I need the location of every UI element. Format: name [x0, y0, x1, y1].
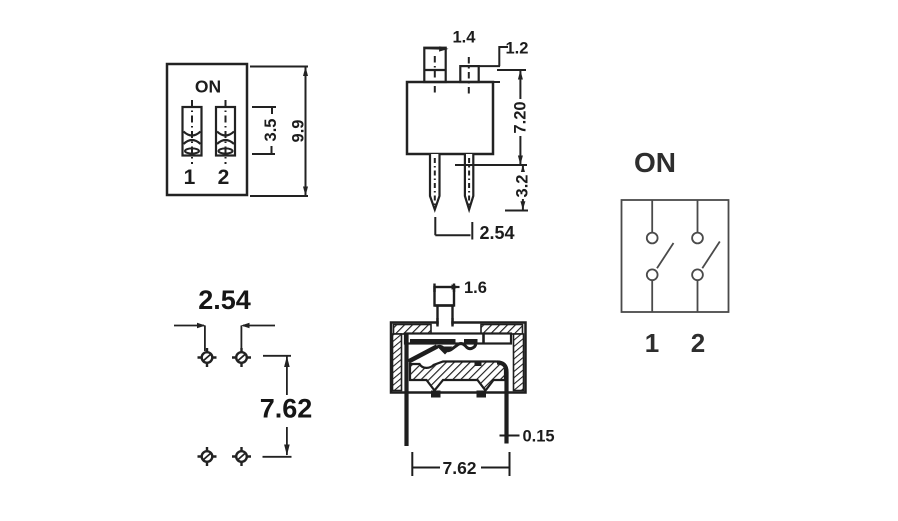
left leg (section) — [404, 334, 408, 446]
switch body (front view) — [407, 82, 493, 154]
svg-text:9.9: 9.9 — [290, 120, 308, 143]
svg-text:0.15: 0.15 — [523, 428, 555, 446]
pin stub 2 (section) — [477, 391, 487, 398]
dim 7.20 / 3.2 shared extension — [455, 164, 527, 166]
contact spring — [435, 342, 476, 351]
dim 1.4 leader — [425, 47, 445, 50]
switch 2 top wire — [697, 200, 699, 233]
dim 2.54 arrow left — [174, 325, 204, 327]
svg-text:2.54: 2.54 — [198, 285, 251, 315]
top wall hatched left — [394, 325, 432, 335]
switch 1 lower contact — [647, 269, 658, 280]
actuator 2 centerline — [468, 57, 470, 94]
slider slot 2 — [216, 107, 235, 156]
right leg (section) — [497, 363, 507, 444]
switch 2 lever — [702, 242, 720, 269]
switch body outline (top view) — [167, 64, 247, 195]
switch 1 bottom wire — [651, 280, 653, 312]
switch 1 lever — [657, 243, 674, 268]
svg-text:1.2: 1.2 — [506, 40, 529, 58]
dim 7.62 line (section) — [412, 452, 509, 476]
svg-text:7.20: 7.20 — [512, 101, 530, 133]
dim 0.15 line — [500, 435, 520, 437]
dim 7.62 line lower with arrow down — [286, 427, 288, 455]
slot 1 slider dimple — [185, 148, 199, 153]
dim 2.54 arrow right — [243, 325, 275, 327]
switch 2 bottom wire — [697, 280, 699, 312]
switch 1 upper contact — [647, 233, 658, 244]
top wall hatched right — [481, 325, 523, 335]
right wall hatched — [514, 334, 524, 391]
top wall ledge lines — [431, 333, 438, 335]
actuator 1 raised — [424, 48, 445, 82]
slider slot 1 — [183, 107, 202, 156]
cover plate — [405, 334, 511, 344]
actuator stem (section) — [438, 306, 453, 326]
dim 3.5 extension bottom — [252, 146, 275, 154]
dim 9.9 extension bottom — [250, 195, 308, 197]
pin stub 1 (section) — [431, 391, 441, 398]
dim 9.9 text — [290, 118, 304, 144]
dim 1.2 elbow — [499, 47, 508, 66]
dim 1.6 arrow — [454, 286, 460, 288]
svg-text:1: 1 — [645, 328, 659, 358]
pad B1 — [198, 447, 217, 466]
dim 2.54 elbow (front view) — [435, 217, 472, 240]
pad A1 — [198, 348, 217, 367]
dim 7.62 text (section) — [440, 458, 481, 476]
slot 2 slider arcs — [217, 132, 234, 136]
svg-text:7.62: 7.62 — [442, 458, 476, 478]
switch 2 lower contact — [692, 269, 703, 280]
slot 2 slider dimple — [219, 148, 233, 153]
svg-text:1.4: 1.4 — [453, 29, 477, 47]
switch 1 top wire — [651, 200, 653, 233]
svg-text:ON: ON — [195, 77, 221, 97]
actuator 1 centerline — [434, 56, 436, 94]
actuator knob (section) — [435, 287, 455, 306]
pad B2 — [232, 447, 251, 466]
stationary contact strip — [410, 339, 456, 343]
svg-text:2: 2 — [218, 166, 230, 189]
pad A2 — [232, 348, 251, 367]
svg-text:ON: ON — [634, 147, 676, 178]
rail body top extended — [493, 81, 500, 83]
svg-text:3.5: 3.5 — [262, 119, 280, 142]
svg-text:2: 2 — [691, 328, 705, 358]
svg-text:2.54: 2.54 — [480, 223, 515, 243]
svg-text:1.6: 1.6 — [464, 279, 487, 297]
base hatched block — [410, 362, 505, 391]
pad extension lines — [204, 326, 206, 352]
svg-text:7.62: 7.62 — [260, 394, 313, 424]
dim 3.5 extension top — [252, 107, 276, 114]
stem opening through body top — [439, 319, 451, 327]
dim 7.20 line — [519, 70, 521, 165]
slot 1 centerline — [191, 100, 193, 164]
movable contact dimple — [437, 347, 453, 355]
pin 1 (front view) — [430, 154, 440, 210]
dim 3.2 line — [522, 165, 524, 210]
svg-text:1: 1 — [184, 166, 196, 189]
dim 7.20 extension top — [497, 69, 526, 71]
dim 3.2 text — [514, 172, 531, 199]
base notch mark — [475, 362, 482, 367]
dim 9.9 extension top — [250, 66, 308, 68]
slot 1 slider arcs — [184, 132, 201, 136]
left wall hatched — [393, 334, 402, 391]
svg-text:3.2: 3.2 — [514, 175, 532, 198]
actuator 2 lowered — [460, 66, 478, 82]
dim 7.62 extension top — [263, 355, 291, 357]
rail top of actuator 2 extended — [479, 65, 500, 67]
dim 7.62 extension bottom — [263, 456, 292, 458]
body outline (section) — [391, 323, 526, 393]
dim 7.20 text — [511, 99, 528, 136]
dim 9.9 line — [305, 67, 307, 197]
switch 2 upper contact — [692, 233, 703, 244]
dim 3.2 extension bottom — [505, 210, 528, 212]
schematic box — [622, 200, 729, 312]
cover plate divider — [482, 334, 485, 345]
dim 7.62 line upper with arrow up — [286, 356, 288, 395]
slot 2 centerline — [225, 100, 227, 164]
pin 2 (front view) — [465, 154, 473, 210]
